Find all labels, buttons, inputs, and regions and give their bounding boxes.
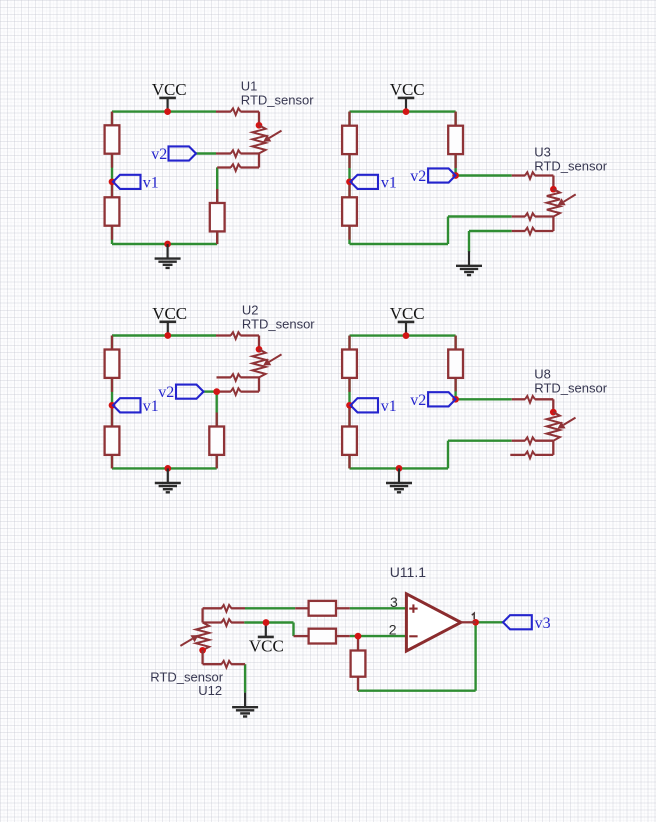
resistor bridge4 upper-left	[348, 336, 350, 350]
wire: bridge 4 return riser	[447, 441, 449, 469]
svg-text:2: 2	[389, 622, 397, 638]
node: U2 RTD top junction dot	[256, 346, 263, 353]
node: U8 RTD top junction dot	[550, 409, 557, 416]
wire: bridge 1 right branch	[216, 167, 218, 244]
svg-text:v2: v2	[158, 384, 174, 401]
power symbol VCC (bridge 3)	[160, 320, 177, 323]
RTD sensor U8 pin 1 (top lead)	[512, 398, 526, 400]
power symbol VCC (amplifier, inverted)	[258, 636, 274, 639]
RTD sensor U12 bottom lead (pin 1)	[201, 650, 203, 664]
RTD element of U3 (variable resistor zigzag)	[547, 189, 560, 216]
wire: bridge 2 return riser	[447, 217, 449, 245]
node: ground junction dot bridge3	[164, 465, 171, 472]
RTD sensor U1 pin 3 (bottom lead)	[217, 166, 231, 168]
wire: U12 bottom lead to ground	[244, 664, 246, 692]
RTD sensor U1 pin 1 (top lead)	[216, 110, 231, 112]
svg-text:VCC: VCC	[152, 304, 187, 323]
wire: bridge 4 left branch	[348, 336, 350, 469]
resistor R feedback shunt (vertical box)	[357, 636, 359, 650]
resistor bridge1 lower-left	[111, 183, 113, 197]
RTD sensor U8 pin 2 (middle lead)	[512, 440, 526, 442]
ground symbol (amplifier)	[244, 693, 246, 708]
wire: feedback riser to output	[474, 622, 476, 690]
wire: bridge 4 right branch	[454, 336, 456, 400]
svg-text:RTD_sensor: RTD_sensor	[242, 317, 315, 332]
svg-text:RTD_sensor: RTD_sensor	[534, 381, 607, 396]
wire: op-amp output to v3 port	[476, 621, 503, 623]
wire: bridge 3 bottom rail	[112, 467, 217, 469]
power symbol VCC (bridge 4)	[398, 321, 415, 324]
wire: bridge 2 left branch	[348, 112, 350, 244]
node: v2 junction dot bridge3	[213, 388, 220, 395]
RTD sensor U3 pin 1 (top lead)	[512, 174, 526, 176]
RTD element of U8 (variable resistor zigzag)	[547, 412, 560, 441]
node: VCC junction dot bridge4	[403, 332, 410, 339]
node: VCC junction dot bridge2	[403, 108, 410, 115]
svg-text:VCC: VCC	[390, 304, 425, 323]
wire: bridge 1 top rail	[112, 110, 216, 112]
wire: bridge 2 bottom rail	[350, 243, 449, 245]
resistor bridge2 upper-right	[454, 112, 456, 126]
port v3 (amplifier output)	[503, 615, 532, 629]
port v1 (bridge 1)	[113, 175, 141, 189]
node: v2 junction dot bridge4	[452, 396, 459, 403]
node: v1 junction dot bridge1	[109, 178, 116, 185]
resistor R input+ (horizontal box)	[295, 607, 308, 609]
svg-text:RTD_sensor: RTD_sensor	[534, 159, 607, 174]
node: inverting input junction dot	[355, 633, 362, 640]
RTD sensor U8 internal vertical link	[552, 441, 554, 455]
RTD sensor U2 pin 3 (bottom lead)	[217, 390, 231, 392]
resistor bridge4 upper-right	[454, 336, 456, 350]
svg-text:v1: v1	[381, 174, 397, 191]
node: VCC tap junction dot (amplifier)	[263, 619, 270, 626]
wire: U12 top lead to R gain input	[245, 607, 295, 609]
svg-text:U1: U1	[241, 79, 258, 94]
resistor bridge3 lower-left	[111, 407, 113, 427]
port v2 (bridge 3)	[176, 385, 204, 399]
wire: U12 middle lead to VCC tap	[244, 621, 293, 623]
node: ground junction dot bridge1	[164, 241, 171, 248]
node: v1 junction dot bridge2	[346, 178, 353, 185]
resistor bridge1 lower-right	[216, 189, 218, 203]
wire: bridge 1 left branch	[111, 112, 113, 244]
svg-text:3: 3	[390, 594, 398, 610]
RTD sensor U12 wiper arrow	[180, 639, 192, 646]
svg-text:v1: v1	[143, 174, 159, 191]
RTD sensor U12 top lead (pin 3)	[203, 607, 222, 609]
wire: bridge 4 top rail	[350, 334, 456, 336]
wire: v2 port to U2 bottom pin	[204, 390, 217, 392]
resistor bridge1 upper-left	[111, 112, 113, 126]
wire: bridge 2 top rail	[350, 110, 456, 112]
svg-text:RTD_sensor: RTD_sensor	[241, 93, 314, 108]
resistor bridge2 upper-left	[348, 112, 350, 126]
resistor R input- (horizontal box)	[294, 635, 309, 637]
wire: U3 middle pin to return riser	[448, 215, 512, 217]
wire: U8 middle pin to return riser	[448, 440, 512, 442]
wire: bridge 4 bottom rail	[350, 467, 449, 469]
wire: v2 node to U8 top pin	[456, 398, 512, 400]
RTD sensor U3 pin 3 (bottom lead)	[512, 230, 526, 232]
node: v2 junction dot bridge2	[452, 172, 459, 179]
svg-text:VCC: VCC	[152, 80, 187, 99]
wire: bridge 1 bottom rail	[112, 243, 217, 245]
node: ground junction dot bridge4	[396, 465, 403, 472]
node: v1 junction dot bridge3	[109, 402, 116, 409]
port v1 (bridge 3)	[113, 398, 141, 412]
wire: bridge 2 right branch	[454, 112, 456, 176]
RTD sensor U1 pin 2 (middle lead)	[216, 152, 231, 154]
svg-text:v1: v1	[143, 398, 159, 415]
RTD sensor U3 internal vertical link	[552, 217, 554, 232]
svg-text:v2: v2	[410, 392, 426, 409]
node: VCC junction dot bridge3	[164, 332, 171, 339]
RTD sensor U12 middle lead (pin 2)	[203, 621, 222, 623]
ground symbol (bridge 4)	[398, 468, 400, 483]
resistor bridge2 lower-left	[348, 183, 350, 197]
pin number 1 (output)	[472, 613, 474, 619]
RTD element of U12 (variable resistor zigzag)	[196, 623, 209, 651]
svg-text:U12: U12	[198, 683, 222, 698]
op-amp U11.1 triangle	[406, 594, 461, 651]
wire: U3 bottom pin to ground	[469, 230, 512, 232]
svg-text:v3: v3	[535, 615, 551, 632]
RTD sensor U2 pin 2 (middle lead stub)	[217, 376, 231, 378]
ground symbol (bridge 2)	[468, 251, 470, 266]
wire: bridge 3 right branch	[215, 392, 217, 469]
RTD sensor U2 internal vertical link	[258, 377, 260, 391]
RTD sensor U2 wiper arrow	[269, 354, 281, 361]
port v2 (bridge 4)	[428, 392, 456, 406]
port v2 (bridge 1)	[169, 146, 197, 160]
wire: feedback bottom run	[358, 690, 476, 692]
svg-text:v2: v2	[410, 168, 426, 185]
svg-text:U11.1: U11.1	[390, 564, 427, 580]
svg-text:U3: U3	[534, 145, 551, 160]
node: U3 RTD top junction dot	[550, 186, 557, 193]
wire: v2 node to U3 top pin	[456, 174, 512, 176]
svg-text:U2: U2	[242, 303, 259, 318]
ground symbol (bridge 3)	[167, 468, 169, 483]
port v1 (bridge 4)	[351, 398, 379, 412]
RTD sensor U2 pin 1 (top lead)	[216, 334, 231, 336]
ground symbol (bridge 1)	[167, 244, 169, 259]
port v1 (bridge 2)	[351, 175, 379, 189]
RTD sensor U3 pin 2 (middle lead)	[512, 215, 526, 217]
svg-text:VCC: VCC	[390, 80, 425, 99]
svg-text:U8: U8	[534, 367, 551, 382]
svg-text:RTD_sensor: RTD_sensor	[150, 669, 223, 684]
node: U1 RTD top junction dot	[256, 122, 263, 129]
op-amp U11.1 plus marking	[409, 608, 417, 610]
svg-text:VCC: VCC	[249, 637, 284, 656]
RTD sensor U8 pin 3 (bottom lead stub)	[510, 454, 525, 456]
RTD sensor U3 wiper arrow	[564, 194, 576, 201]
node: output junction dot	[472, 619, 479, 626]
svg-text:v1: v1	[381, 398, 397, 415]
resistor bridge3 upper-left	[111, 336, 113, 350]
op-amp U11.1 minus marking	[409, 635, 417, 637]
op-amp output pin	[461, 621, 476, 623]
svg-text:v2: v2	[151, 146, 167, 163]
RTD element of U1 (variable resistor zigzag)	[252, 125, 265, 153]
node: v1 junction dot bridge4	[346, 402, 353, 409]
wire: R output to op-amp pin 3	[350, 607, 407, 609]
port v2 (bridge 2)	[428, 168, 456, 182]
resistor bridge4 lower-left	[348, 407, 350, 427]
RTD sensor U1 internal vertical link	[258, 154, 260, 168]
wire: R2 output to op-amp pin 2	[350, 635, 407, 637]
wire: bridge 3 top rail	[112, 334, 216, 336]
wire: bridge 3 left branch	[111, 336, 113, 469]
RTD sensor U12 internal vertical link	[201, 608, 203, 622]
wire: v2 port to U1 middle pin	[196, 152, 216, 154]
node: U12 RTD bottom junction dot	[199, 647, 206, 654]
power symbol VCC (bridge 1)	[159, 97, 176, 100]
RTD sensor U8 wiper arrow	[564, 418, 576, 425]
node: VCC junction dot bridge1	[164, 108, 171, 115]
RTD sensor U1 wiper arrow	[269, 131, 281, 138]
resistor bridge3 lower-right	[216, 413, 218, 427]
power symbol VCC (bridge 2)	[398, 97, 415, 100]
RTD element of U2 (variable resistor zigzag)	[252, 349, 265, 377]
